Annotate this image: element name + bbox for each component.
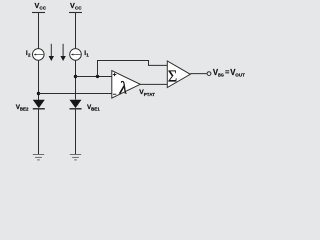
net VCC (right) label: [70, 1, 82, 11]
svg-text:BE2: BE2: [20, 107, 29, 112]
wire: I1 to diode D1 anode (node VBE1): [75, 60, 77, 99]
output terminal: [207, 72, 211, 76]
junction: node VBE1: [74, 75, 77, 78]
label I2: [26, 50, 31, 58]
label I1: [84, 50, 89, 58]
wire: node VBE1 to lambda plus input: [76, 76, 112, 78]
ground (right): [70, 155, 81, 160]
label VBE2: [16, 104, 29, 112]
diode D1: [70, 100, 82, 109]
summer U2 (sigma): [167, 61, 190, 88]
current arrow I2 branch: [49, 44, 54, 61]
current source I2: [33, 49, 45, 61]
wire: D2 cathode to ground: [38, 109, 40, 154]
svg-text:BG: BG: [218, 73, 224, 79]
label VPTAT: [139, 89, 155, 97]
wire: summer output to terminal: [190, 73, 207, 75]
svg-text:PTAT: PTAT: [144, 92, 155, 97]
svg-text:BE1: BE1: [91, 107, 100, 112]
wire: VCC left to I2: [38, 13, 40, 49]
wire: I2 to diode D2 anode (node VBE2): [38, 60, 40, 100]
supply bar VCC right: [69, 12, 82, 14]
svg-text:Σ: Σ: [168, 66, 178, 85]
wire: node VBE2 to lambda minus input: [39, 93, 112, 95]
wire: lambda output to summer lower input: [140, 83, 167, 85]
svg-text:1: 1: [86, 53, 89, 58]
junction: VBE1 tap to summer: [96, 75, 99, 78]
net VCC (left) label: [35, 1, 47, 11]
svg-text:λ: λ: [119, 78, 128, 98]
op-amp U1 (PTAT gain stage, lambda): [112, 71, 141, 99]
wire: VCC right to I1: [75, 13, 77, 49]
svg-text:OUT: OUT: [235, 73, 245, 79]
svg-text:2: 2: [28, 53, 31, 58]
supply bar VCC left: [32, 12, 45, 14]
label VBG = VOUT: [213, 68, 245, 79]
label VBE1: [87, 104, 100, 112]
svg-text:=: =: [225, 68, 229, 77]
diode D2: [33, 100, 45, 109]
svg-text:CC: CC: [75, 5, 82, 10]
current source I1: [70, 49, 82, 61]
wire: VBE1 riser and top run to summer upper input: [98, 61, 168, 77]
junction: node VBE2: [37, 92, 40, 95]
svg-text:CC: CC: [39, 5, 46, 10]
wire: D1 cathode to ground: [75, 109, 77, 154]
current arrow I1 branch: [60, 44, 65, 61]
ground (left): [33, 155, 44, 160]
